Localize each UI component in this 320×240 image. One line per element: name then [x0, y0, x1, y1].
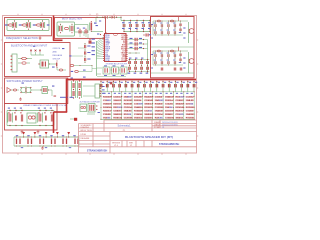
svg-text:1/1: 1/1 [130, 145, 133, 147]
svg-text:FREQUENCY SELECTION: FREQUENCY SELECTION [6, 36, 38, 40]
svg-text:XS3868 BLUETOOTH: XS3868 BLUETOOTH [106, 63, 128, 65]
svg-text:100R: 100R [179, 97, 185, 99]
svg-text:100R: 100R [127, 117, 133, 119]
svg-text:100R: 100R [107, 97, 113, 99]
svg-text:10uF: 10uF [148, 104, 154, 106]
svg-text:220R: 220R [179, 104, 185, 106]
svg-text:100R: 100R [138, 104, 144, 106]
svg-text:BUSY SELECTION: BUSY SELECTION [62, 19, 82, 21]
svg-text:100R: 100R [158, 100, 164, 102]
svg-text:10uF: 10uF [190, 97, 196, 99]
svg-text:OFFICE: OFFICE [53, 48, 61, 50]
svg-text:BROG TECH: BROG TECH [81, 130, 93, 132]
svg-text:100R: 100R [148, 114, 154, 116]
svg-text:220R: 220R [169, 117, 175, 119]
svg-text:VERSION: VERSION [112, 143, 121, 145]
svg-text:LED: LED [107, 114, 112, 116]
svg-text:10uF: 10uF [158, 114, 164, 116]
svg-text:LED: LED [117, 100, 122, 102]
svg-text:P.TIME: P.TIME [154, 127, 160, 129]
svg-text:BLUETOOTH AND AUX INPUT: BLUETOOTH AND AUX INPUT [11, 43, 48, 47]
svg-text:220R: 220R [138, 110, 144, 112]
svg-text:220R: 220R [148, 97, 154, 99]
svg-text:PCM: PCM [105, 60, 109, 62]
svg-text:PIO0: PIO0 [121, 60, 125, 62]
svg-text:10uF: 10uF [107, 110, 113, 112]
svg-text:10uF: 10uF [179, 110, 185, 112]
svg-text:SWITCHING POWER SUPPLY: SWITCHING POWER SUPPLY [7, 79, 43, 83]
svg-text:220R: 220R [117, 114, 123, 116]
svg-text:220R: 220R [107, 104, 113, 106]
svg-text:DPGB: DPGB [81, 134, 87, 136]
svg-text:STRANGHBRUSH: STRANGHBRUSH [159, 143, 180, 146]
svg-text:220R: 220R [127, 100, 133, 102]
svg-text:10uF: 10uF [138, 117, 144, 119]
svg-text:10uF: 10uF [169, 100, 175, 102]
svg-text:1/1: 1/1 [162, 127, 164, 129]
svg-text:V1.0: V1.0 [114, 145, 118, 147]
svg-text:LED: LED [127, 110, 132, 112]
svg-text:GROUP: GROUP [53, 58, 61, 60]
svg-text:2021-10-02 15:03:55: 2021-10-02 15:03:55 [162, 125, 178, 127]
svg-text:LED: LED [169, 104, 174, 106]
svg-text:BLUETOOTH SPEAKER DIY (BT): BLUETOOTH SPEAKER DIY (BT) [125, 135, 173, 139]
svg-text:220R: 220R [190, 114, 196, 116]
svg-text:CHECK: CHECK [154, 125, 161, 127]
svg-text:2021-10-02 15:03:55: 2021-10-02 15:03:55 [162, 122, 178, 124]
svg-text:LED: LED [190, 100, 195, 102]
svg-text:100R: 100R [169, 110, 175, 112]
svg-text:LED: LED [179, 114, 184, 116]
svg-text:Schematic1: Schematic1 [117, 125, 131, 128]
svg-text:LED: LED [138, 97, 143, 99]
svg-text:STRANGHBRUSH: STRANGHBRUSH [87, 150, 108, 153]
svg-text:LED: LED [148, 107, 153, 109]
svg-text:LED: LED [158, 117, 163, 119]
svg-text:10uF: 10uF [117, 97, 123, 99]
